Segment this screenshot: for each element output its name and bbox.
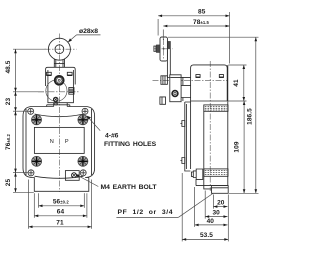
head side slot right: [219, 75, 223, 78]
ear screw top-right: [82, 108, 88, 114]
terminal band top: [204, 105, 228, 111]
head neck: [47, 103, 70, 107]
roller lever roller outer: [48, 38, 70, 60]
node body centerline vertical: [58, 107, 60, 192]
ear screw bottom-left: [28, 170, 34, 176]
svg-text:30: 30: [212, 209, 220, 216]
head outline: [46, 67, 76, 102]
screw adjuster small: [54, 97, 58, 101]
node head horizontal centerline: [38, 91, 80, 93]
svg-text:53.5: 53.5: [200, 232, 213, 239]
dim ext ear top: [13, 110, 28, 112]
head bottom line: [191, 100, 228, 102]
svg-text:25: 25: [5, 179, 12, 187]
cam circle arc: [46, 80, 67, 101]
LEFT VIEW: [23, 34, 95, 193]
node roller horizontal centerline: [45, 48, 77, 50]
fitting screw top-right: [78, 115, 88, 125]
head front face line: [182, 77, 184, 101]
dim ext ear bottom: [13, 172, 28, 174]
dim chain line left: [15, 49, 17, 192]
plate screw top: [180, 121, 184, 127]
mounting plate side: [185, 102, 191, 171]
roller axle nut: [156, 45, 160, 53]
lever fork crossbar: [54, 63, 64, 65]
plunger ribs: [69, 88, 74, 95]
dim ext body bottom: [13, 191, 34, 193]
ear screw bottom-right: [80, 170, 86, 176]
body side outline: [191, 65, 228, 186]
hub nut lower left: [160, 97, 166, 104]
internal vertical line: [203, 111, 205, 185]
svg-text:23: 23: [5, 98, 12, 106]
svg-text:85: 85: [198, 9, 206, 16]
svg-text:PF 1/2 or 3/4: PF 1/2 or 3/4: [118, 209, 174, 216]
plate screw bottom: [180, 158, 184, 164]
fitting screw bottom-right: [78, 156, 88, 166]
head side outline: [191, 65, 228, 101]
svg-text:M4 EARTH BOLT: M4 EARTH BOLT: [101, 184, 158, 191]
svg-text:20: 20: [217, 199, 225, 206]
dim ext head line: [13, 91, 44, 93]
terminal band bottom: [204, 169, 228, 176]
dim ext roller center: [13, 48, 46, 50]
svg-text:56±0.2: 56±0.2: [53, 199, 70, 206]
lever arm side: [167, 42, 170, 78]
node side horizontal centerline: [153, 80, 228, 82]
ear screw top-left: [28, 108, 34, 114]
fitting screw top-left: [32, 115, 42, 125]
roller hub inner: [55, 45, 64, 54]
node side centerline vertical: [209, 61, 211, 191]
bottom sag curve: [35, 176, 84, 178]
svg-text:ø28x8: ø28x8: [79, 28, 98, 35]
hex bolt head pivot: [55, 76, 64, 85]
hub nut upper left: [161, 76, 168, 85]
earth bolt screw: [72, 173, 77, 178]
svg-text:64: 64: [57, 209, 65, 216]
svg-text:71: 71: [56, 220, 64, 227]
body inner wall right: [91, 109, 93, 175]
svg-text:N: N: [50, 139, 54, 145]
svg-text:40: 40: [207, 218, 215, 225]
svg-text:41: 41: [233, 79, 240, 87]
hub top flange line: [170, 76, 190, 78]
svg-text:4-#6: 4-#6: [105, 133, 119, 140]
front boss: [181, 85, 191, 97]
svg-text:78±1.5: 78±1.5: [193, 19, 210, 26]
fitting screw bottom-left: [32, 156, 42, 166]
node roller side centerline: [154, 48, 173, 50]
hub shaft end: [172, 91, 178, 97]
lever hub block side: [170, 75, 181, 102]
svg-text:48.5: 48.5: [5, 60, 12, 73]
body outline: [23, 107, 95, 192]
conduit step: [204, 186, 212, 189]
top sag curve: [35, 114, 84, 117]
earth bolt box: [65, 171, 79, 181]
earth bolt side: [191, 169, 202, 179]
lever fork arm right: [63, 59, 65, 68]
roller side: [160, 37, 168, 61]
head notch right: [67, 72, 72, 75]
svg-text:FITTING HOLES: FITTING HOLES: [104, 141, 157, 148]
svg-text:186.5: 186.5: [247, 108, 254, 125]
body inner wall left: [25, 109, 27, 175]
wire centerline vertical (left view): [58, 34, 60, 108]
head side slot left: [196, 75, 200, 78]
dim arrows left chain: [14, 49, 17, 53]
svg-text:109: 109: [234, 141, 241, 152]
conduit: [212, 186, 229, 194]
neck screw: [55, 102, 58, 105]
DIMENSIONS: [5, 9, 259, 242]
svg-text:P: P: [65, 139, 69, 145]
lever fork arm left: [54, 59, 56, 68]
cover window: [34, 127, 84, 153]
svg-text:76±0.2: 76±0.2: [5, 133, 12, 150]
RIGHT VIEW: [153, 37, 229, 193]
head notch left: [47, 72, 52, 75]
